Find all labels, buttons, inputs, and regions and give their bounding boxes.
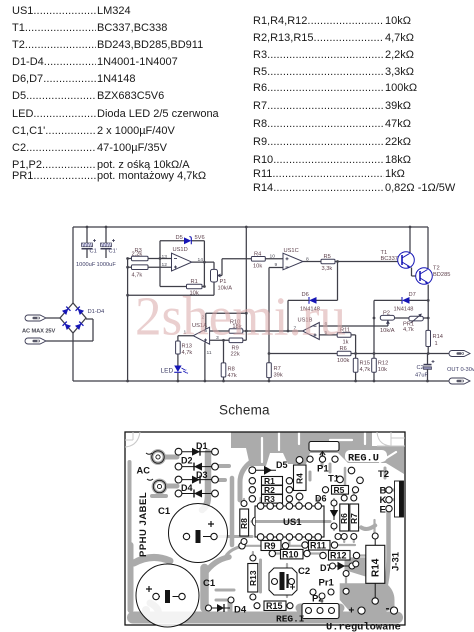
svg-text:D4: D4 [181, 483, 193, 493]
wire R3R2 left vertical [127, 259, 129, 382]
resistor R5 [321, 259, 335, 264]
svg-text:PPHU JABEL: PPHU JABEL [138, 492, 149, 557]
svg-text:R6: R6 [339, 513, 349, 524]
svg-text:REG.U: REG.U [348, 453, 379, 465]
terminal OUT- [449, 378, 470, 384]
svg-text:14: 14 [198, 257, 204, 263]
svg-text:R1: R1 [191, 279, 198, 285]
wire T1 collector [409, 227, 411, 254]
capacitor C2 [424, 360, 435, 369]
wire U1C out to T1 base [303, 261, 398, 263]
svg-text:D1: D1 [196, 441, 208, 451]
svg-text:T2: T2 [433, 266, 440, 272]
junction [245, 312, 248, 315]
svg-text:D5: D5 [176, 235, 183, 241]
svg-text:10k/A: 10k/A [380, 328, 395, 334]
svg-text:4,7k: 4,7k [403, 327, 414, 333]
svg-text:R12: R12 [378, 361, 388, 367]
junction [426, 380, 429, 383]
wire R2 row [128, 266, 172, 268]
svg-text:-: - [386, 601, 390, 615]
junction [354, 380, 357, 383]
svg-text:T1: T1 [381, 250, 388, 256]
svg-text:US1: US1 [283, 517, 302, 528]
svg-text:1000uF: 1000uF [76, 262, 96, 268]
wire P2 PR1 row [395, 317, 429, 319]
pcb resistor R5 [332, 486, 349, 495]
svg-text:C2: C2 [298, 566, 310, 577]
wire R3 row [128, 258, 172, 260]
resistor R15 [353, 358, 358, 372]
transistor T1 [398, 252, 415, 269]
junction [354, 352, 357, 355]
junction [159, 257, 162, 260]
wire R12 leads [373, 354, 375, 382]
wire mid vertical x246 [245, 227, 247, 340]
svg-text:+: + [349, 606, 355, 617]
resistor R11 [337, 333, 351, 338]
terminal AC in 1 [25, 315, 46, 321]
pcb AC input pads [146, 451, 166, 493]
junction [245, 330, 248, 333]
svg-text:REG.I: REG.I [276, 614, 305, 625]
svg-text:2,2k: 2,2k [132, 252, 143, 258]
junction [126, 294, 129, 297]
pcb resistor R11 [309, 541, 331, 551]
wire U1C pin9 sense [269, 268, 283, 354]
resistor R10 [229, 329, 243, 334]
pcb capacitor C2 [269, 568, 297, 595]
pcb resistor R8 vertical [240, 509, 249, 536]
junction [126, 380, 129, 383]
pcb capacitor C1 lower circle [136, 564, 199, 627]
svg-text:39k: 39k [274, 373, 283, 379]
svg-text:R7: R7 [349, 513, 359, 524]
svg-text:OUT 0-30v: OUT 0-30v [447, 367, 474, 373]
wire R13 LED lead [177, 354, 179, 381]
parts list right column [253, 15, 474, 29]
wire R15 leads [355, 354, 357, 382]
junction [203, 285, 206, 288]
pcb resistor R14 vertical [366, 545, 385, 583]
wire ground bottom rail [73, 380, 452, 382]
svg-text:C1': C1' [109, 249, 117, 255]
svg-text:22k: 22k [231, 352, 240, 358]
svg-text:47uF: 47uF [415, 372, 428, 378]
wire P1 bottom link [128, 282, 214, 295]
wire U1B output line [210, 330, 303, 332]
pcb diode D2 [182, 463, 212, 471]
wire OUT+ rail [269, 353, 452, 355]
wire +V top rail [73, 226, 428, 228]
pcb T2 mount bar [395, 481, 404, 517]
pcb resistor R10 [281, 549, 304, 559]
svg-text:R11: R11 [310, 541, 326, 551]
wire left frame lower [72, 333, 74, 381]
potentiometer P2 [380, 315, 394, 326]
capacitor C1 [82, 239, 97, 249]
op-amp US1D [172, 253, 192, 271]
svg-text:10: 10 [270, 254, 276, 260]
junction [373, 317, 376, 320]
svg-text:US1D: US1D [173, 247, 188, 253]
svg-text:D2: D2 [181, 456, 193, 466]
svg-text:47k: 47k [228, 373, 237, 379]
pcb capacitor C1 upper circle [169, 504, 228, 563]
svg-text:1000uF: 1000uF [97, 262, 117, 268]
svg-text:P2: P2 [383, 310, 390, 316]
wire D7 row [374, 299, 428, 301]
wire U1B pin5 R11 [319, 335, 355, 354]
pcb pads [153, 448, 398, 614]
svg-text:R14: R14 [433, 334, 443, 340]
svg-text:R8: R8 [228, 367, 235, 373]
wire D6 branch [288, 262, 338, 332]
junction [336, 260, 339, 263]
svg-text:E: E [380, 505, 386, 516]
pcb outline frame [125, 432, 405, 625]
svg-text:1N4148: 1N4148 [394, 307, 414, 313]
zener diode D5 [184, 236, 191, 244]
svg-text:10k: 10k [378, 367, 387, 373]
pcb resistor R9 [261, 541, 281, 551]
svg-text:100k: 100k [337, 358, 349, 364]
resistor R3 [132, 256, 149, 261]
junction [245, 226, 248, 229]
junction [427, 299, 430, 302]
junction [126, 266, 129, 269]
svg-text:US1C: US1C [284, 248, 299, 254]
wire U1A out to R13 [178, 336, 193, 341]
junction [204, 380, 207, 383]
pcb resistor R4 vertical [294, 465, 307, 491]
capacitor C1' [101, 239, 116, 249]
wire T2 collector drop [427, 227, 429, 269]
junction [222, 380, 225, 383]
svg-text:D4: D4 [234, 605, 247, 616]
wire AC in top [46, 317, 60, 319]
resistor R12 [372, 358, 377, 372]
svg-text:C2: C2 [417, 365, 424, 371]
svg-text:D6: D6 [315, 494, 327, 504]
pcb corner mark top-right [377, 432, 405, 446]
wire R7 leads [268, 354, 270, 382]
resistor R1 [187, 284, 203, 289]
svg-text:J-31: J-31 [391, 551, 402, 571]
svg-text:AC: AC [137, 466, 151, 476]
svg-text:3,3k: 3,3k [322, 266, 333, 272]
svg-text:P1: P1 [220, 279, 227, 285]
wire P1 wiper to R4 [217, 259, 252, 276]
pcb resistors R6 R7 vertical [339, 504, 359, 531]
potentiometer PR1 [409, 314, 423, 323]
svg-text:2shemi.ru: 2shemi.ru [135, 286, 346, 347]
svg-text:C1: C1 [203, 578, 216, 589]
junction [203, 261, 206, 264]
wire AC in bottom [46, 319, 93, 341]
svg-text:Pr1: Pr1 [319, 578, 335, 589]
junction [427, 352, 430, 355]
junction [373, 380, 376, 383]
pcb resistor R15 [264, 601, 286, 611]
svg-text:R4: R4 [295, 473, 305, 484]
svg-text:R6: R6 [340, 346, 347, 352]
op-amp US1C [283, 253, 303, 270]
svg-text:D3: D3 [196, 470, 208, 480]
svg-text:R9: R9 [264, 541, 276, 551]
junction [177, 380, 180, 383]
svg-text:R4: R4 [254, 252, 261, 258]
svg-text:R10: R10 [282, 550, 299, 560]
pcb resistor R12 [329, 551, 351, 561]
diode D6 [304, 297, 319, 304]
svg-text:U.regulowane: U.regulowane [326, 622, 401, 632]
pcb diode D1 [182, 448, 212, 456]
junction [268, 352, 271, 355]
resistor R13 [176, 341, 181, 354]
junction [268, 380, 271, 383]
pcb diode D4 upper [182, 490, 212, 498]
svg-text:R15: R15 [360, 361, 370, 367]
svg-text:8: 8 [306, 256, 309, 262]
wire R4 to U1C pin10 [265, 258, 283, 260]
resistor R9 [229, 338, 243, 343]
svg-text:C1: C1 [90, 249, 97, 255]
pcb diode D3 [182, 476, 212, 484]
svg-text:10k: 10k [253, 264, 262, 270]
svg-text:BD285: BD285 [433, 272, 450, 278]
junction [126, 257, 129, 260]
svg-text:4,7k: 4,7k [360, 367, 371, 373]
op-amp US1A [193, 327, 209, 344]
transistor T2 [416, 268, 433, 285]
pcb copper pours and traces [130, 432, 405, 618]
svg-text:D1-D4: D1-D4 [88, 309, 106, 315]
svg-text:Schema: Schema [219, 403, 270, 418]
junction [86, 226, 89, 229]
resistor R7 [267, 363, 272, 378]
svg-text:12: 12 [162, 262, 168, 268]
svg-text:AC MAX 25V: AC MAX 25V [22, 329, 55, 335]
svg-text:11: 11 [207, 350, 212, 356]
pcb corner mark top-left [125, 432, 140, 447]
junction [287, 330, 290, 333]
svg-text:5V6: 5V6 [195, 235, 205, 241]
wire R8 leads [223, 340, 225, 381]
wire U1A pin3 R9 [210, 339, 247, 341]
wire T1 emitter to T2 base [412, 268, 416, 277]
wire C1p leads [105, 227, 107, 258]
parts list left column [12, 5, 242, 19]
pcb pot P1 [309, 442, 339, 457]
svg-text:R15: R15 [266, 601, 283, 611]
junction [427, 317, 430, 320]
junction [409, 226, 412, 229]
svg-text:LED: LED [161, 368, 174, 375]
resistor R6 [337, 351, 351, 356]
op-amp US1B [303, 323, 320, 340]
wire U1D feedback loop [160, 241, 204, 287]
svg-text:R13: R13 [248, 570, 258, 586]
svg-text:R14: R14 [371, 558, 382, 577]
svg-text:BC337: BC337 [381, 256, 398, 262]
junction [105, 226, 108, 229]
potentiometer P1 [211, 269, 222, 282]
pcb resistors R1 R2 R3 [262, 476, 283, 504]
svg-text:D7: D7 [409, 292, 416, 298]
terminal AC in 2 [25, 338, 46, 344]
junction [222, 339, 225, 342]
resistor R2 [132, 265, 149, 270]
resistor R8 [221, 363, 226, 377]
wire U1A pin2 loop [206, 313, 247, 329]
svg-text:9: 9 [275, 262, 278, 268]
wire U1A supply pin [204, 343, 206, 382]
terminal OUT+ [449, 351, 470, 357]
wire U1D output to P1 [192, 262, 214, 269]
diode D7 [399, 297, 411, 304]
wire C1 leads [86, 227, 88, 258]
junction [373, 352, 376, 355]
resistor R4 [251, 257, 265, 262]
pcb resistor R13 vertical [248, 564, 258, 593]
wire U1B pin6 to P2 wiper [319, 321, 388, 327]
pcb diode D4 bottom [212, 604, 230, 612]
svg-text:T2: T2 [378, 469, 389, 480]
bridge rectifier D1-D4 [60, 303, 86, 333]
resistor R14 [426, 330, 431, 346]
svg-text:D5: D5 [276, 460, 288, 470]
LED [174, 366, 188, 374]
wire left frame upper [72, 227, 74, 303]
svg-text:4,7k: 4,7k [182, 350, 193, 356]
svg-text:R8: R8 [239, 518, 249, 529]
wire P2 left vertical [373, 300, 375, 353]
svg-text:1: 1 [435, 341, 438, 347]
svg-text:C1: C1 [158, 506, 171, 517]
pcb diode D5 [256, 466, 276, 475]
svg-text:R12: R12 [330, 551, 347, 561]
wire C2 leads [427, 354, 429, 382]
wire T2 emitter to R14 [427, 285, 429, 354]
svg-text:4,7k: 4,7k [132, 273, 143, 279]
svg-text:R5: R5 [324, 254, 331, 260]
svg-text:R7: R7 [274, 366, 281, 372]
svg-text:13: 13 [162, 254, 168, 260]
pcb IC US1 [252, 506, 324, 537]
svg-text:R5: R5 [334, 485, 345, 495]
